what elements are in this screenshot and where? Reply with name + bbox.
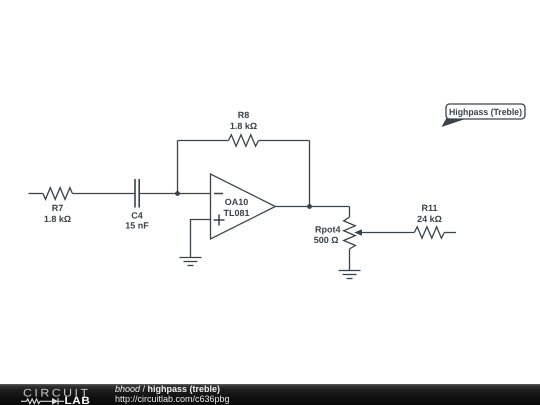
- node A junction dot: [175, 191, 180, 196]
- wire plus input: [191, 220, 211, 258]
- capacitor C4: [135, 179, 139, 208]
- op-amp plus pin: [214, 215, 225, 226]
- potentiometer wiper arrow: [354, 229, 414, 236]
- svg-text:1.8 kΩ: 1.8 kΩ: [44, 214, 71, 224]
- svg-text:R8: R8: [238, 110, 250, 120]
- wire C4 to op-amp minus input: [139, 193, 210, 195]
- svg-text:Highpass (Treble): Highpass (Treble): [449, 107, 522, 117]
- wire R7 to C4: [72, 193, 135, 195]
- wire output stub right: [444, 232, 456, 234]
- ground Rpot4: [339, 271, 361, 279]
- ground op-amp: [180, 258, 202, 266]
- footer bar: [0, 384, 540, 405]
- wire feedback left: [178, 140, 229, 142]
- wire output: [275, 206, 349, 208]
- wire node A up: [177, 141, 179, 194]
- svg-text:C4: C4: [131, 210, 143, 220]
- CircuitLab logo: [0, 384, 100, 405]
- credit text: [115, 385, 230, 404]
- svg-text:Rpot4: Rpot4: [315, 224, 341, 234]
- op-amp U1 triangle: [211, 174, 276, 239]
- svg-text:OA10: OA10: [225, 197, 249, 207]
- svg-text:1.8 kΩ: 1.8 kΩ: [230, 121, 257, 131]
- svg-text:R11: R11: [421, 203, 437, 213]
- resistor R11: [414, 227, 444, 238]
- svg-text:TL081: TL081: [223, 208, 249, 218]
- node B junction dot: [307, 204, 312, 209]
- resistor R7: [43, 188, 72, 200]
- svg-text:500 Ω: 500 Ω: [314, 235, 339, 245]
- logo resistor-diode glyph: [21, 398, 64, 405]
- wire feedback down: [309, 141, 311, 207]
- resistor R8: [229, 135, 259, 146]
- op-amp minus pin: [214, 193, 223, 195]
- annotation callout Highpass (Treble): [442, 104, 526, 127]
- potentiometer Rpot4: [344, 207, 356, 271]
- svg-text:LAB: LAB: [65, 395, 91, 405]
- wire input stub: [29, 193, 44, 195]
- svg-text:R7: R7: [52, 203, 64, 213]
- wire feedback right: [259, 140, 310, 142]
- svg-text:24 kΩ: 24 kΩ: [417, 214, 442, 224]
- svg-text:15 nF: 15 nF: [125, 221, 149, 231]
